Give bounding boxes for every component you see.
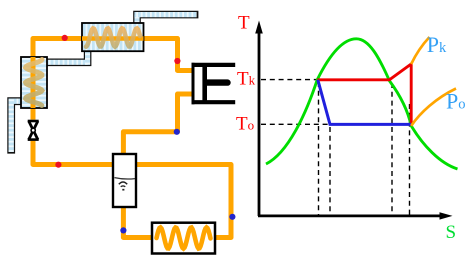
cycle: condensation + compression (red) <box>317 64 411 126</box>
wire water pipe W2 fill <box>46 60 88 65</box>
wire water pipe W2 outline (left exchanger to condenser bottom) <box>46 50 88 62</box>
T axis <box>255 21 263 217</box>
heat exchanger (left, water-coupled) body <box>21 57 47 108</box>
node red dot on compressor discharge line <box>174 58 180 64</box>
wire compressor bottom port to receiver top <box>123 94 192 157</box>
cycle: expansion + evaporation (blue) <box>318 80 411 125</box>
svg-text:T: T <box>238 13 250 34</box>
isobar Pk (orange) <box>411 37 429 64</box>
expansion valve <box>28 120 39 141</box>
wire water pipe W1 outline (condenser top to right stub) <box>137 15 198 24</box>
svg-text:To: To <box>236 114 254 135</box>
wire water pipe W3 fill <box>11 98 22 103</box>
saturation dome (green) <box>266 39 458 169</box>
svg-text:Tk: Tk <box>237 69 256 90</box>
receiver (liquid receiver with sight glass) <box>113 154 136 207</box>
wire bottom coil left to receiver bottom <box>123 202 152 238</box>
wire water pipe W3 outline (left exchanger bottom to lower-left stub) <box>11 101 22 153</box>
node blue dot at suction line corner <box>174 129 180 135</box>
T-S diagram: dashed vertical at point 1 <box>409 104 411 215</box>
compressor (piston) <box>192 63 236 105</box>
heat exchanger (condenser) body <box>82 23 144 51</box>
svg-text:Pk: Pk <box>427 32 447 57</box>
node red dot (state point) on condenser inlet line <box>62 35 68 41</box>
T-S diagram: dashed guide line at Tk <box>261 79 317 81</box>
svg-text:S: S <box>446 222 457 243</box>
wire refrigerant main loop: compressor top port, over condenser, down left exchanger, through valve, to receiver line <box>33 39 231 238</box>
S axis <box>258 212 453 219</box>
bottom coil heat exchanger box <box>152 223 215 254</box>
node blue dot below receiver <box>120 227 126 233</box>
T-S diagram: dashed vertical at point 2' <box>391 83 393 215</box>
T-S diagram: dashed guide line at To <box>261 123 330 125</box>
node blue dot on bottom loop right riser <box>229 214 235 220</box>
isobar Po (orange) <box>411 89 456 126</box>
wire water pipe W1 fill <box>134 15 139 24</box>
T-S diagram: dashed vertical at point 4 <box>329 127 331 215</box>
node red dot on expansion valve outlet line <box>55 162 61 168</box>
svg-text:Po: Po <box>446 88 465 113</box>
T-S diagram: dashed vertical at point 3 <box>318 82 320 215</box>
